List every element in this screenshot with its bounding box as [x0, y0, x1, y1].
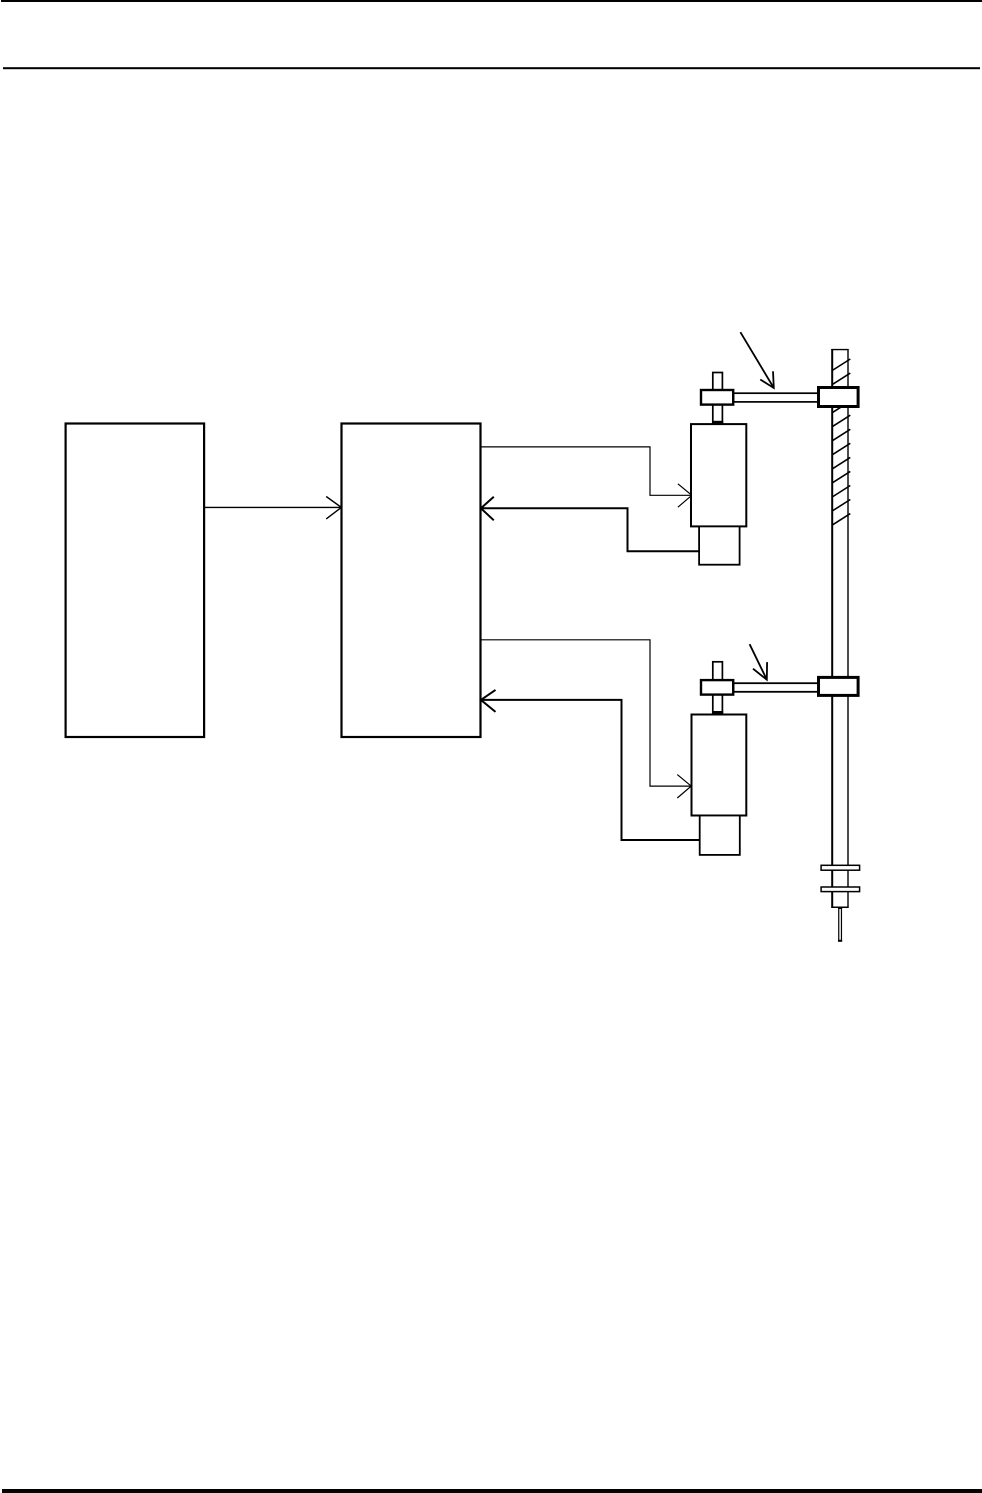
flange 1 on rod — [821, 865, 860, 870]
wire: driver to motor 1 — [481, 447, 691, 495]
sensor pin lower — [712, 662, 723, 715]
arrowhead into motor 1 — [678, 484, 692, 507]
arrowhead into motor 2 — [677, 775, 691, 798]
box: driver unit — [342, 424, 481, 738]
motor M2 — [692, 715, 747, 816]
rod clamp lower (on lead screw) — [819, 677, 859, 695]
pointer arrow to upper flag — [740, 332, 773, 388]
wire: motor 2 feedback to driver — [482, 700, 700, 840]
motor M1 — [691, 424, 746, 526]
sensor flag bar upper — [734, 393, 819, 402]
gearbox under motor M1 — [699, 526, 740, 564]
page top rule — [1, 0, 982, 2]
wire: motor 1 feedback to driver — [482, 508, 699, 551]
pointer arrow to lower flag — [750, 644, 768, 680]
arrowhead into driver (lower feedback) — [481, 690, 496, 712]
sensor pin upper — [712, 373, 723, 425]
gearbox under motor M2 — [700, 816, 740, 855]
arrowhead into driver (upper feedback) — [481, 497, 494, 521]
arrowhead into driver unit — [326, 497, 341, 519]
flange 2 on rod — [821, 887, 860, 892]
wire: driver to motor 2 — [481, 640, 690, 786]
needle tip — [838, 907, 842, 942]
header rule — [3, 67, 980, 69]
footer rule — [2, 1489, 982, 1493]
sensor flag bar lower — [734, 683, 819, 692]
sensor clamp lower (on pin) — [701, 680, 733, 695]
sensor clamp upper (on pin) — [701, 390, 733, 405]
box: control unit — [66, 424, 205, 738]
rod clamp upper (on lead screw) — [819, 388, 859, 407]
lead screw rod body — [831, 349, 849, 907]
thread hatching on lead screw — [832, 359, 850, 525]
wire: control unit to driver unit — [205, 506, 341, 508]
